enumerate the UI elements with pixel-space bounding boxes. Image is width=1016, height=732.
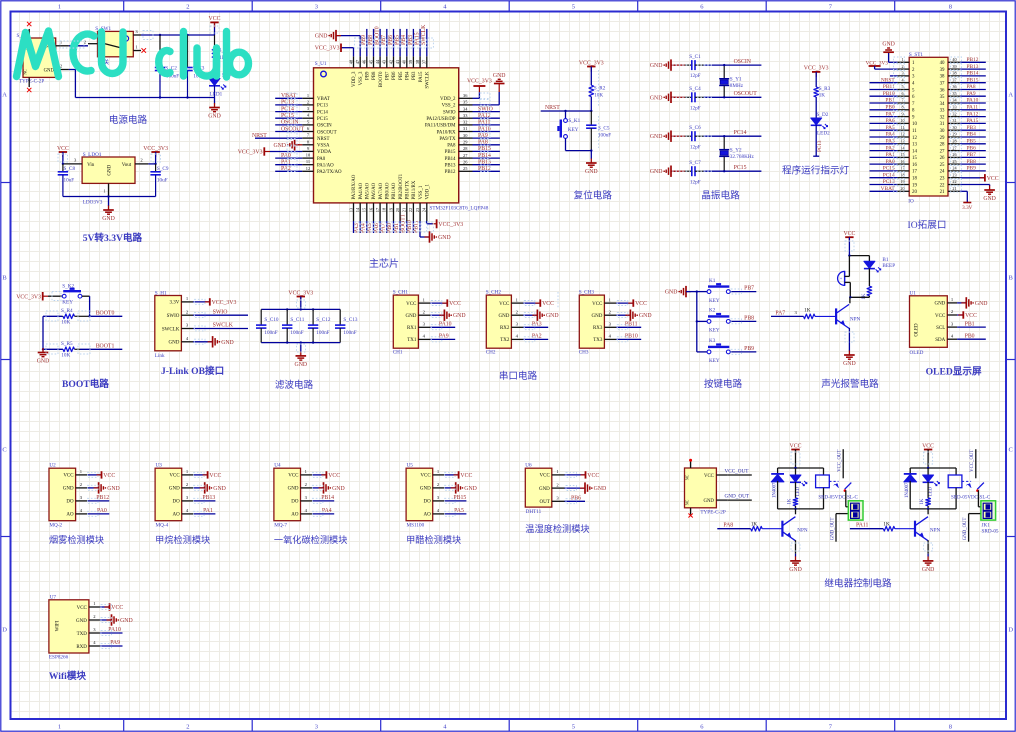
svg-text:S_C10: S_C10: [264, 317, 279, 323]
svg-text:PA0: PA0: [281, 153, 291, 159]
power symbol VCC_3V3 (BOOT): [16, 292, 62, 301]
svg-text:B: B: [1009, 274, 1014, 281]
LED S_D2: [811, 112, 830, 156]
svg-text:BOOT1: BOOT1: [400, 214, 406, 233]
svg-text:VCC_3V3: VCC_3V3: [315, 46, 340, 52]
svg-text:RX2: RX2: [500, 326, 510, 331]
capacitor S_C1 12pF with ground and OSCIN wire: [650, 54, 762, 79]
svg-text:PB15: PB15: [967, 77, 979, 83]
svg-text:TYPE-C-2P: TYPE-C-2P: [19, 79, 44, 85]
svg-text:VCC: VCC: [406, 302, 417, 307]
svg-text:甲醋检测模块: 甲醋检测模块: [406, 534, 461, 545]
svg-text:程序运行指示灯: 程序运行指示灯: [782, 165, 850, 177]
svg-text:GND: GND: [108, 164, 113, 175]
resistor S_R2 10K: [589, 85, 606, 111]
svg-text:BOOT0: BOOT0: [379, 71, 384, 87]
svg-text:OSCIN: OSCIN: [317, 124, 332, 129]
svg-text:19: 19: [900, 179, 904, 184]
svg-text:VCC_3V3: VCC_3V3: [212, 300, 237, 306]
svg-text:6: 6: [901, 91, 903, 96]
svg-text:PB7: PB7: [744, 286, 754, 292]
power symbol VCC_3V3 on S_U1 VDD_3 pin: [315, 44, 354, 57]
svg-text:3.3V: 3.3V: [170, 301, 180, 306]
svg-text:39: 39: [952, 64, 956, 69]
section label run indicator: [782, 165, 850, 177]
svg-text:PB10/TX: PB10/TX: [406, 180, 411, 199]
power symbol VCC_3V3 (reset): [579, 60, 604, 85]
svg-text:甲烷检测模块: 甲烷检测模块: [155, 534, 210, 545]
svg-text:BEEP: BEEP: [882, 263, 895, 269]
S_ST1 right pins wires and labels: [948, 57, 986, 191]
svg-text:PA8: PA8: [478, 140, 488, 146]
capacitor S_C3 100nF: [182, 35, 206, 98]
svg-text:S_R4: S_R4: [61, 308, 73, 314]
ground symbol GND (BOOT): [37, 348, 50, 365]
power symbol VCC (relay PA11) [relay 2]: [922, 443, 934, 468]
ground symbol GND (filter): [295, 351, 308, 368]
svg-text:PB13: PB13: [445, 164, 456, 169]
net labels right of S_U1: [478, 106, 493, 172]
wire GND_OUT to connector [relay 2]: [963, 514, 981, 542]
svg-text:VSSA: VSSA: [317, 144, 330, 149]
svg-text:8MHz: 8MHz: [730, 83, 744, 89]
resistor S_R5 10K: [43, 341, 80, 359]
svg-text:PA15: PA15: [967, 118, 979, 124]
terminal block JK (relay output) [relay 1]: [848, 501, 863, 520]
svg-text:GND: GND: [539, 487, 550, 492]
section label J-Link OB: [161, 365, 224, 377]
svg-text:KEY: KEY: [709, 298, 720, 304]
svg-text:U4: U4: [274, 462, 281, 468]
LED B1 BEEP branch: [864, 256, 895, 287]
svg-text:8: 8: [949, 4, 952, 11]
svg-text:GND: GND: [208, 114, 221, 120]
svg-text:7: 7: [901, 98, 903, 103]
svg-text:PC14: PC14: [317, 110, 328, 115]
ground symbol GND (relay) [relay 1]: [789, 556, 802, 573]
svg-text:VCC: VCC: [843, 231, 855, 237]
svg-text:PB8: PB8: [744, 316, 754, 322]
svg-text:C: C: [1009, 446, 1013, 453]
svg-text:KEY: KEY: [709, 358, 720, 364]
svg-text:24: 24: [940, 170, 945, 175]
svg-text:OUT: OUT: [540, 500, 550, 505]
svg-text:MS1100: MS1100: [407, 523, 425, 529]
svg-text:12pF: 12pF: [690, 105, 701, 111]
ground symbol on S_U1 VSS_3 pin: [315, 30, 360, 56]
svg-text:10K: 10K: [61, 320, 70, 326]
svg-text:PC14: PC14: [734, 130, 747, 136]
section label OLED display: [926, 367, 982, 378]
svg-text:3: 3: [315, 4, 318, 11]
pin 1 of S_T1 with wire to switch: [56, 40, 88, 46]
capacitor S_C8 10uF: [58, 164, 76, 197]
svg-text:28: 28: [952, 139, 956, 144]
svg-text:12pF: 12pF: [690, 144, 701, 150]
svg-text:TX1: TX1: [407, 338, 417, 343]
svg-text:PB7: PB7: [386, 71, 391, 80]
svg-text:17: 17: [912, 170, 917, 175]
svg-text:K2: K2: [709, 308, 716, 314]
terminal block JK (relay output) [relay 2]: [981, 501, 999, 535]
svg-text:ESP8266: ESP8266: [49, 655, 69, 661]
svg-text:PA2/TX/AO: PA2/TX/AO: [317, 170, 342, 175]
svg-text:8: 8: [949, 724, 952, 731]
svg-text:VCC: VCC: [209, 16, 221, 22]
alarm top node wires: [848, 254, 869, 276]
wire VCC_OUT to relay contact [relay 2]: [970, 449, 976, 478]
no-ERC marker on S_SW1 pin 1: [142, 48, 147, 53]
resistor S_R3 1K: [814, 86, 831, 118]
svg-text:温湿度检测模块: 温湿度检测模块: [525, 523, 589, 534]
svg-text:16: 16: [912, 163, 917, 168]
svg-text:21: 21: [940, 190, 945, 195]
svg-text:2: 2: [186, 4, 189, 11]
key S_K1 (vertical): [558, 111, 580, 151]
svg-text:PA2: PA2: [281, 166, 291, 172]
svg-text:S_ST1: S_ST1: [909, 52, 924, 58]
svg-text:VCC_3V3: VCC_3V3: [16, 294, 41, 300]
svg-text:SWCLK: SWCLK: [162, 327, 180, 332]
svg-text:PB3: PB3: [408, 35, 414, 45]
power symbol VCC (power circuit): [209, 16, 221, 27]
svg-text:SDA: SDA: [935, 338, 945, 343]
svg-text:GND: GND: [650, 134, 663, 140]
svg-text:GND: GND: [592, 314, 603, 319]
svg-text:1: 1: [103, 188, 105, 193]
svg-text:PB3: PB3: [412, 71, 417, 80]
wire GND_OUT to connector [relay 1]: [830, 514, 848, 542]
net label NRST wire: [541, 105, 593, 112]
section label temperature humidity: [525, 523, 589, 534]
svg-text:GND: GND: [499, 314, 510, 319]
svg-text:VCC: VCC: [587, 473, 599, 479]
svg-text:40: 40: [952, 57, 956, 62]
svg-text:VCC: VCC: [935, 314, 946, 319]
svg-text:PA7/AO: PA7/AO: [379, 182, 384, 199]
svg-text:35: 35: [940, 95, 945, 100]
svg-text:30: 30: [940, 129, 945, 134]
svg-text:C: C: [2, 446, 6, 453]
svg-text:SRD-05: SRD-05: [982, 529, 999, 535]
svg-text:11: 11: [912, 129, 917, 134]
svg-text:VCC_3V3: VCC_3V3: [438, 222, 463, 228]
svg-text:AO: AO: [423, 513, 431, 518]
svg-text:23: 23: [940, 177, 945, 182]
svg-text:33: 33: [940, 109, 945, 114]
net label SWIO wire (J-Link pin 2): [193, 309, 248, 315]
svg-text:复位电路: 复位电路: [574, 190, 613, 202]
ground symbol on S_U1 VSS_2 pin: [473, 73, 506, 105]
svg-text:VCC_OUT: VCC_OUT: [725, 469, 750, 475]
svg-text:VCC_3V3: VCC_3V3: [288, 290, 313, 296]
svg-text:VCC_OUT: VCC_OUT: [838, 450, 843, 472]
svg-text:VCC: VCC: [57, 146, 69, 152]
svg-text:PA8: PA8: [967, 84, 976, 90]
svg-text:GND: GND: [44, 68, 55, 73]
svg-text:13: 13: [912, 143, 917, 148]
svg-text:PA9: PA9: [439, 334, 449, 340]
svg-text:PB4: PB4: [967, 132, 977, 138]
svg-text:VCC: VCC: [209, 473, 221, 479]
svg-text:PA12: PA12: [967, 111, 979, 117]
svg-text:5: 5: [572, 4, 575, 11]
svg-text:GND: GND: [37, 359, 50, 365]
svg-text:25: 25: [940, 163, 945, 168]
svg-text:26: 26: [940, 156, 945, 161]
svg-text:PB9: PB9: [967, 166, 977, 172]
svg-text:29: 29: [952, 132, 956, 137]
svg-text:VDD_2: VDD_2: [440, 97, 456, 102]
section label 5V to 3.3V: [83, 232, 143, 244]
svg-text:OSCOUT: OSCOUT: [317, 130, 337, 135]
svg-text:Link: Link: [155, 353, 165, 359]
svg-text:GND: GND: [882, 42, 895, 48]
svg-text:GND: GND: [922, 567, 935, 573]
base wire PA8 with 1K resistor [relay 1]: [717, 521, 782, 531]
svg-text:21: 21: [952, 186, 956, 191]
svg-text:S_C1: S_C1: [689, 54, 701, 60]
svg-text:GND: GND: [438, 235, 451, 241]
section label dianyuan dianlu: [109, 114, 148, 126]
svg-text:PB15: PB15: [445, 150, 456, 155]
svg-text:38: 38: [952, 71, 956, 76]
svg-text:VCC: VCC: [922, 443, 934, 449]
left vertical wire BOOT divider: [42, 316, 44, 350]
svg-text:Vin: Vin: [87, 163, 95, 168]
power symbol VCC_3V3 on S_U1 VDD_1 pin: [427, 219, 464, 228]
svg-text:20: 20: [900, 186, 904, 191]
power symbol VCC_3V3 (filter): [288, 290, 313, 310]
svg-text:VSS_2: VSS_2: [442, 104, 456, 109]
section label reset circuit: [574, 190, 613, 202]
svg-text:K3: K3: [709, 338, 716, 344]
svg-text:PC15: PC15: [734, 165, 747, 171]
svg-text:D: D: [2, 626, 7, 633]
ground symbol GND (LDO): [102, 206, 115, 223]
svg-text:GND: GND: [703, 499, 714, 504]
svg-text:OSCOUT: OSCOUT: [734, 91, 758, 97]
svg-text:VCC_3V3: VCC_3V3: [143, 146, 168, 152]
svg-text:S_Y1: S_Y1: [730, 77, 742, 83]
svg-text:BOOT1: BOOT1: [96, 344, 115, 350]
capacitor S_C12 100nF: [308, 309, 331, 342]
module U5 MS1100 formaldehyde sensor: [406, 462, 477, 528]
svg-text:36: 36: [940, 88, 945, 93]
net label VCC_OUT wire: [716, 469, 751, 475]
section label methane detect: [155, 534, 210, 545]
svg-text:VCC: VCC: [704, 474, 714, 479]
ground symbol on S_U1 VSSA pin: [273, 139, 302, 150]
transistor NPN (relay) [relay 2]: [915, 517, 941, 541]
svg-text:37: 37: [940, 82, 945, 87]
svg-text:100nF: 100nF: [316, 330, 329, 336]
section label IO expansion: [908, 219, 947, 231]
svg-text:NC: NC: [685, 474, 690, 480]
svg-text:PC13: PC13: [317, 104, 328, 109]
ground rail wire of LDO: [63, 195, 156, 206]
svg-text:PB9: PB9: [366, 71, 371, 80]
svg-text:GND: GND: [843, 361, 856, 367]
svg-text:8: 8: [901, 105, 903, 110]
alarm emitter to ground: [848, 328, 850, 351]
svg-text:PB5: PB5: [395, 35, 401, 45]
LED (relay indicator) [relay 1]: [790, 468, 807, 498]
svg-text:17: 17: [900, 166, 904, 171]
svg-text:GND: GND: [63, 487, 74, 492]
relay switch contact dashes [relay 2]: [962, 481, 971, 488]
capacitor S_C9 10uF: [150, 164, 168, 197]
svg-text:PB0: PB0: [965, 333, 975, 339]
svg-text:GND: GND: [650, 63, 663, 69]
svg-text:GND_OUT: GND_OUT: [963, 517, 968, 540]
svg-text:GND: GND: [493, 73, 506, 79]
svg-text:PA4: PA4: [322, 508, 332, 514]
svg-text:PA9/TX: PA9/TX: [439, 137, 456, 142]
resistor 1K (relay LED) [relay 2]: [920, 498, 931, 509]
resistor 1K (relay LED) [relay 1]: [787, 498, 798, 509]
dashed highlight decorations: [46, 26, 962, 648]
svg-text:S_C5: S_C5: [598, 125, 610, 131]
section label filter circuit: [275, 379, 314, 391]
svg-text:VSS_3: VSS_3: [359, 71, 364, 85]
svg-text:2: 2: [186, 724, 189, 731]
wire switch output to VCC node: [141, 22, 215, 36]
svg-text:10K: 10K: [61, 353, 70, 359]
button bus vertical wire: [696, 290, 698, 352]
svg-text:13: 13: [900, 139, 904, 144]
svg-text:42: 42: [388, 60, 393, 64]
ground symbol GND (alarm): [843, 351, 856, 368]
svg-text:GND: GND: [546, 313, 559, 319]
svg-text:GND_OUT: GND_OUT: [725, 494, 750, 500]
svg-text:GND: GND: [650, 95, 663, 101]
svg-text:S_C13: S_C13: [343, 317, 358, 323]
net label PB1 wire (OLED pin 3): [957, 321, 986, 327]
net label PC13 rotated (run LED): [813, 140, 823, 156]
connector S_CH1 serial port 1: [393, 290, 466, 356]
svg-text:LDO3V3: LDO3V3: [83, 199, 103, 205]
svg-text:SRD-05VDC-SL-C: SRD-05VDC-SL-C: [818, 495, 858, 500]
svg-text:GND: GND: [102, 216, 115, 222]
svg-text:31: 31: [952, 118, 956, 123]
svg-text:GND: GND: [273, 143, 286, 149]
svg-text:S_C7: S_C7: [689, 160, 701, 166]
switch S_SW1: [88, 26, 141, 66]
ground symbol GND (S_ST1 pin 22): [960, 185, 996, 203]
svg-text:OSCIN: OSCIN: [281, 120, 299, 126]
svg-text:VCC: VCC: [63, 474, 74, 479]
svg-text:S_LDO1: S_LDO1: [83, 152, 102, 158]
ground symbol GND (reset): [585, 159, 598, 176]
pin 2 of S_T1 wire down to bottom rail: [56, 63, 76, 97]
svg-text:VDD_1: VDD_1: [426, 183, 431, 199]
svg-text:32: 32: [463, 120, 467, 125]
svg-text:1: 1: [901, 57, 903, 62]
svg-text:LED: LED: [796, 486, 801, 496]
S_U1 bottom side pins and wires: [348, 203, 427, 233]
header S_ST1 IO expansion body: [908, 52, 948, 205]
svg-text:100nF: 100nF: [264, 330, 277, 336]
svg-text:1K: 1K: [787, 498, 792, 504]
power symbol VCC (alarm): [843, 231, 855, 256]
svg-text:VCC: VCC: [449, 301, 461, 307]
svg-text:1K: 1K: [862, 293, 867, 300]
svg-text:PB13: PB13: [967, 64, 979, 70]
svg-text:CH3: CH3: [579, 350, 589, 356]
svg-text:GND: GND: [221, 340, 234, 346]
svg-text:NRST: NRST: [252, 133, 267, 139]
svg-text:STM32F103C8T6_LQFP48: STM32F103C8T6_LQFP48: [430, 205, 489, 211]
svg-text:VCC: VCC: [965, 313, 977, 319]
svg-text:S_C12: S_C12: [316, 317, 331, 323]
junction on NRST at key: [564, 110, 566, 112]
svg-text:PB4: PB4: [406, 71, 411, 80]
svg-text:PA11: PA11: [856, 522, 869, 528]
power symbol VCC (LDO input): [57, 146, 69, 164]
svg-text:PB5: PB5: [967, 139, 977, 145]
svg-text:一氧化碳检测模块: 一氧化碳检测模块: [274, 534, 348, 545]
svg-text:3: 3: [901, 71, 903, 76]
section label CO detect: [274, 534, 348, 545]
svg-text:GND: GND: [934, 302, 945, 307]
svg-text:SWIO: SWIO: [167, 314, 180, 319]
svg-text:S_R3: S_R3: [819, 86, 831, 92]
svg-text:28: 28: [940, 143, 945, 148]
svg-text:主芯片: 主芯片: [369, 257, 399, 270]
no-ERC marker top of S_T1: [27, 22, 31, 26]
svg-text:S_K1: S_K1: [568, 118, 580, 124]
module U2 MQ-2 smoke sensor: [49, 462, 120, 528]
svg-text:1N4007: 1N4007: [772, 482, 777, 498]
relay emitter to ground [relay 2]: [927, 540, 929, 556]
S_U1 left side pins and wires: [255, 93, 314, 172]
svg-text:22: 22: [408, 208, 413, 212]
svg-text:32.768KHz: 32.768KHz: [730, 154, 755, 160]
svg-text:VCC: VCC: [169, 474, 180, 479]
svg-text:VCC: VCC: [987, 176, 999, 182]
svg-text:PA8: PA8: [447, 144, 456, 149]
svg-text:12pF: 12pF: [690, 179, 701, 185]
svg-text:S_R2: S_R2: [594, 85, 606, 91]
svg-text:VCC_3V3: VCC_3V3: [579, 60, 604, 66]
power symbol VCC_3V3 on S_U1 VDD_2 pin: [467, 79, 492, 99]
svg-text:U3: U3: [156, 462, 163, 468]
svg-text:PA9: PA9: [478, 133, 488, 139]
regulator S_LDO1: [64, 152, 156, 205]
section label smoke detect: [49, 534, 104, 545]
capacitor S_C4 12pF with ground and OSCOUT wire: [650, 86, 762, 111]
svg-text:GND: GND: [107, 486, 120, 492]
svg-text:NPN: NPN: [797, 527, 808, 533]
svg-text:S_H1: S_H1: [155, 290, 167, 296]
svg-text:WIFI: WIFI: [56, 620, 61, 631]
svg-text:S_C4: S_C4: [689, 86, 701, 92]
svg-text:PA4/AO: PA4/AO: [359, 182, 364, 199]
svg-text:PB10: PB10: [625, 334, 638, 340]
capacitor S_C6 12pF with ground and PC14 wire: [650, 125, 762, 150]
net label BOOT1 wire: [80, 344, 122, 350]
svg-text:OSCOUT: OSCOUT: [281, 126, 305, 132]
svg-text:1N4007: 1N4007: [905, 482, 910, 498]
svg-text:PB1: PB1: [965, 321, 975, 327]
net label PB0 wire (OLED pin 4): [957, 333, 986, 339]
svg-text:S_CH2: S_CH2: [486, 290, 502, 296]
svg-text:12: 12: [900, 132, 904, 137]
S_U1 right side pins and wires: [459, 93, 500, 171]
power symbol VCC (relay PA8) [relay 1]: [790, 443, 802, 468]
svg-text:100nF: 100nF: [290, 330, 303, 336]
